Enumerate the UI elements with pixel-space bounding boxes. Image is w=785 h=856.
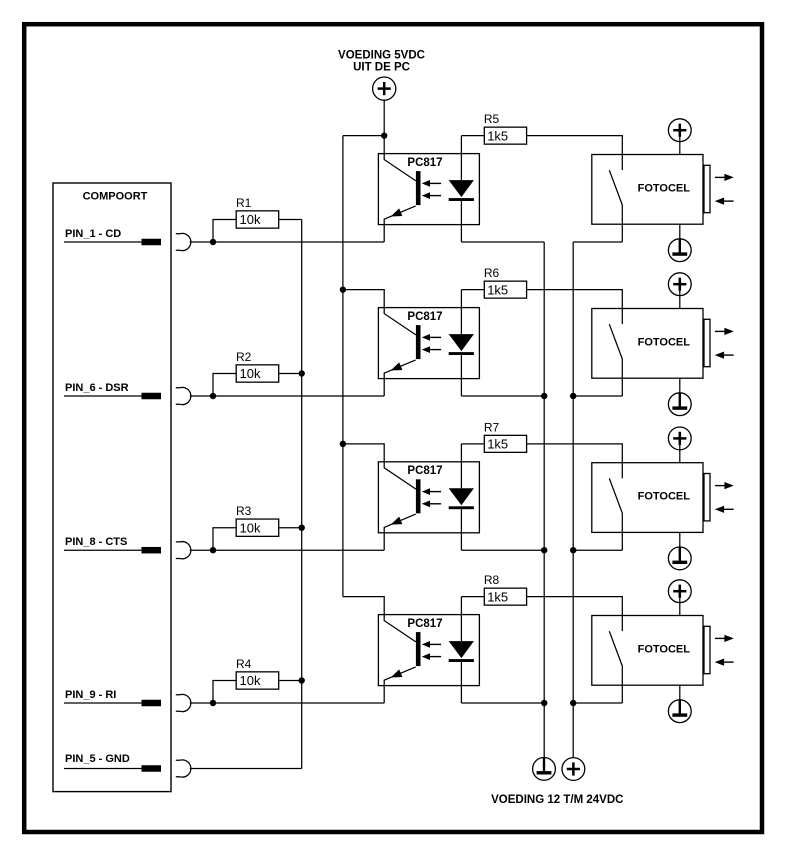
S2 switch output wire bbox=[621, 360, 623, 397]
S4 power terminal + bbox=[668, 580, 691, 603]
wire pin PIN_6 - DSR to junction bbox=[190, 395, 213, 397]
resistor R3 box bbox=[236, 519, 279, 536]
S3 switch output wire bbox=[621, 514, 623, 551]
svg-text:R2: R2 bbox=[236, 350, 252, 364]
fotocel S3 box bbox=[592, 463, 703, 533]
S4 lens tab bbox=[704, 626, 710, 673]
wire R6 left lead bbox=[461, 289, 484, 291]
pin lead line PIN_1 - CD bbox=[64, 241, 161, 243]
U2 light arrow 1 bbox=[422, 334, 441, 341]
U3 LED cathode bar bbox=[449, 506, 474, 509]
U2 phototransistor emitter bbox=[384, 360, 416, 396]
S1 emitted beam arrow bbox=[715, 174, 734, 181]
svg-text:FOTOCEL: FOTOCEL bbox=[638, 644, 691, 656]
svg-text:UIT DE PC: UIT DE PC bbox=[353, 62, 410, 74]
S3 lens tab bbox=[704, 474, 710, 521]
S2 power terminal + bbox=[668, 273, 691, 296]
fotocel S1 box bbox=[592, 155, 703, 225]
S1 power terminal + bbox=[668, 119, 691, 142]
wire R4 to pulldown rail bbox=[279, 680, 302, 682]
svg-text:R4: R4 bbox=[236, 657, 252, 671]
svg-text:PIN_6 - DSR: PIN_6 - DSR bbox=[65, 382, 129, 394]
svg-text:1k5: 1k5 bbox=[487, 128, 508, 143]
S1 reflected beam arrow bbox=[715, 198, 734, 205]
wire 5V rail to U3 collector bbox=[343, 444, 384, 462]
U3 LED anode wire bbox=[460, 444, 462, 488]
wire GND pin to pulldown rail bbox=[190, 768, 302, 770]
U1 LED cathode bar bbox=[449, 198, 474, 201]
pin contact bar PIN_6 - DSR bbox=[142, 393, 162, 400]
svg-text:R7: R7 bbox=[484, 420, 500, 434]
S4 switch output wire bbox=[621, 667, 623, 704]
wire S1 output to +24V rail bbox=[573, 241, 622, 243]
fotocel S4 box bbox=[592, 616, 703, 686]
wire S2 output to +24V rail bbox=[573, 395, 622, 397]
S1 ground lead bbox=[679, 224, 681, 253]
junction node GND rail row 4 bbox=[541, 700, 547, 706]
svg-text:R1: R1 bbox=[236, 196, 252, 210]
pin contact bar PIN_8 - CTS bbox=[142, 547, 162, 554]
resistor R1 box bbox=[236, 211, 279, 228]
S1 ground terminal bbox=[668, 239, 691, 262]
wire S3 output to +24V rail bbox=[573, 549, 622, 551]
U1 light arrow 1 bbox=[422, 180, 441, 187]
svg-text:PIN_8 - CTS: PIN_8 - CTS bbox=[65, 536, 127, 548]
resistor R6 box bbox=[484, 281, 526, 298]
junction node pin row 3 bbox=[210, 547, 216, 553]
U4 LED triangle bbox=[449, 641, 474, 658]
pin socket arc PIN_8 - CTS bbox=[176, 542, 191, 559]
svg-text:VOEDING 5VDC: VOEDING 5VDC bbox=[338, 50, 425, 62]
supply ground terminal bbox=[533, 758, 556, 781]
pin socket arc PIN_9 - RI bbox=[176, 694, 191, 711]
wire U3 cathode to GND rail bbox=[461, 549, 544, 551]
junction node pin row 4 bbox=[210, 700, 216, 706]
pin lead line PIN_8 - CTS bbox=[64, 549, 161, 551]
S4 emitted beam arrow bbox=[715, 635, 734, 642]
junction node GND rail row 3 bbox=[541, 547, 547, 553]
S2 switch blade bbox=[609, 324, 622, 359]
wire R3 to pulldown rail bbox=[279, 527, 302, 529]
S3 ground terminal bbox=[668, 547, 691, 570]
S4 ground lead bbox=[679, 685, 681, 714]
wire R5 to fotocel switch bbox=[527, 136, 623, 170]
U3 LED triangle bbox=[449, 488, 474, 505]
wire pin PIN_8 - CTS to junction bbox=[190, 549, 213, 551]
U2 light arrow 2 bbox=[422, 346, 441, 353]
U4 LED cathode bar bbox=[449, 659, 474, 662]
connector J1 COMPOORT box bbox=[53, 183, 171, 792]
fotocel S2 box bbox=[592, 309, 703, 379]
junction node GND rail row 2 bbox=[541, 393, 547, 399]
svg-text:10k: 10k bbox=[240, 212, 261, 227]
S1 switch output wire bbox=[621, 206, 623, 243]
junction node +24V rail row 3 bbox=[570, 547, 576, 553]
wire R8 left lead bbox=[461, 596, 484, 598]
S3 switch blade bbox=[609, 478, 622, 513]
svg-text:1k5: 1k5 bbox=[487, 437, 508, 452]
U3 light arrow 1 bbox=[422, 488, 441, 495]
S2 ground lead bbox=[679, 378, 681, 407]
S3 power terminal + bbox=[668, 427, 691, 450]
resistor R7 box bbox=[484, 435, 526, 452]
U4 light arrow 1 bbox=[422, 641, 441, 648]
svg-text:1k5: 1k5 bbox=[487, 282, 508, 297]
U1 phototransistor emitter bbox=[384, 206, 416, 242]
optocoupler U2 PC817 box bbox=[378, 308, 479, 379]
wire +5V feed to U1 collector bbox=[383, 136, 385, 154]
pin lead line PIN_6 - DSR bbox=[64, 395, 161, 397]
svg-text:PIN_1 - CD: PIN_1 - CD bbox=[65, 228, 121, 240]
svg-text:COMPOORT: COMPOORT bbox=[83, 191, 148, 203]
optocoupler U4 PC817 box bbox=[378, 615, 479, 686]
U2 LED anode wire bbox=[460, 290, 462, 334]
wire pin PIN_1 - CD to junction bbox=[190, 241, 213, 243]
pin socket arc PIN_6 - DSR bbox=[176, 387, 191, 404]
svg-text:R8: R8 bbox=[484, 573, 500, 587]
U3 phototransistor emitter bbox=[384, 514, 416, 550]
optocoupler U1 PC817 box bbox=[378, 154, 479, 225]
U3 phototransistor base plate bbox=[416, 479, 421, 513]
wire R1 to pulldown rail bbox=[279, 219, 302, 221]
pin socket arc PIN_1 - CD bbox=[176, 233, 191, 250]
junction node pin row 1 bbox=[210, 239, 216, 245]
junction node R2 on pulldown rail bbox=[299, 370, 305, 376]
svg-text:10k: 10k bbox=[240, 520, 261, 535]
pin lead line PIN_9 - RI bbox=[64, 702, 161, 704]
resistor R2 box bbox=[236, 365, 279, 382]
U2 LED triangle bbox=[449, 334, 474, 351]
wire junction up to R2 bbox=[213, 374, 236, 397]
pin lead line PIN_5 - GND bbox=[64, 768, 161, 770]
S2 ground terminal bbox=[668, 393, 691, 416]
svg-text:PIN_9 - RI: PIN_9 - RI bbox=[65, 689, 116, 701]
resistor R8 box bbox=[484, 588, 526, 605]
svg-text:1k5: 1k5 bbox=[487, 589, 508, 604]
wire junction up to R3 bbox=[213, 528, 236, 551]
U4 phototransistor emitter bbox=[384, 667, 416, 703]
wire 5V rail bbox=[342, 136, 344, 597]
S3 emitted beam arrow bbox=[715, 482, 734, 489]
pin contact bar PIN_5 - GND bbox=[142, 765, 162, 772]
U1 phototransistor collector bbox=[384, 154, 416, 181]
svg-text:PIN_5 - GND: PIN_5 - GND bbox=[65, 753, 130, 765]
S2 reflected beam arrow bbox=[715, 352, 734, 359]
svg-text:PC817: PC817 bbox=[407, 465, 442, 477]
wire pulldown rail to GND bbox=[301, 220, 303, 769]
wire row 3 to optocoupler emitter bbox=[213, 549, 384, 551]
wire row 2 to optocoupler emitter bbox=[213, 395, 384, 397]
junction node 5V rail row 2 bbox=[340, 286, 346, 292]
wire junction up to R4 bbox=[213, 681, 236, 704]
optocoupler U3 PC817 box bbox=[378, 462, 479, 533]
U4 phototransistor collector bbox=[384, 615, 416, 642]
U2 phototransistor base plate bbox=[416, 325, 421, 359]
svg-text:10k: 10k bbox=[240, 366, 261, 381]
junction node R4 on pulldown rail bbox=[299, 677, 305, 683]
U3 light arrow 2 bbox=[422, 500, 441, 507]
S1 power lead bbox=[679, 136, 681, 154]
S2 lens tab bbox=[704, 319, 710, 366]
svg-text:FOTOCEL: FOTOCEL bbox=[638, 491, 691, 503]
pin contact bar PIN_9 - RI bbox=[142, 700, 162, 707]
U4 LED cathode wire bbox=[460, 662, 462, 703]
svg-text:R6: R6 bbox=[484, 266, 500, 280]
wire R2 to pulldown rail bbox=[279, 373, 302, 375]
wire row 4 to optocoupler emitter bbox=[213, 702, 384, 704]
junction node R3 on pulldown rail bbox=[299, 525, 305, 531]
svg-text:FOTOCEL: FOTOCEL bbox=[638, 337, 691, 349]
power terminal +5V bbox=[373, 77, 396, 100]
S4 power lead bbox=[679, 597, 681, 615]
wire 5V rail to U4 collector bbox=[343, 597, 384, 615]
svg-text:VOEDING 12 T/M 24VDC: VOEDING 12 T/M 24VDC bbox=[491, 794, 623, 806]
U3 emitter arrowhead bbox=[391, 517, 403, 525]
U1 LED anode wire bbox=[460, 136, 462, 180]
wire R8 to fotocel switch bbox=[527, 597, 623, 631]
S2 emitted beam arrow bbox=[715, 328, 734, 335]
junction node +5V feed bbox=[381, 132, 387, 138]
wire R7 left lead bbox=[461, 443, 484, 445]
junction node 5V rail row 3 bbox=[340, 441, 346, 447]
supply terminal + 12/24V bbox=[562, 758, 585, 781]
U1 LED cathode wire bbox=[460, 201, 462, 242]
svg-text:R5: R5 bbox=[484, 112, 500, 126]
wire U2 cathode to GND rail bbox=[461, 395, 544, 397]
svg-text:PC817: PC817 bbox=[407, 311, 442, 323]
junction node pin row 2 bbox=[210, 393, 216, 399]
svg-text:R3: R3 bbox=[236, 504, 252, 518]
svg-text:PC817: PC817 bbox=[407, 157, 442, 169]
U1 LED triangle bbox=[449, 180, 474, 197]
svg-text:FOTOCEL: FOTOCEL bbox=[638, 183, 691, 195]
U1 light arrow 2 bbox=[422, 192, 441, 199]
U2 emitter arrowhead bbox=[391, 362, 403, 370]
wire R7 to fotocel switch bbox=[527, 444, 623, 478]
wire +5V terminal down bbox=[383, 100, 385, 135]
U3 phototransistor collector bbox=[384, 462, 416, 489]
junction node +24V rail row 4 bbox=[570, 700, 576, 706]
pin socket arc PIN_5 - GND bbox=[176, 760, 191, 777]
resistor R5 box bbox=[484, 127, 526, 144]
wire +24V rail (switch commons) bbox=[572, 242, 574, 758]
S3 ground lead bbox=[679, 532, 681, 561]
U2 phototransistor collector bbox=[384, 308, 416, 335]
S2 power lead bbox=[679, 290, 681, 308]
wire R6 to fotocel switch bbox=[527, 290, 623, 324]
wire U4 cathode to GND rail bbox=[461, 702, 544, 704]
S3 power lead bbox=[679, 444, 681, 462]
junction node +24V rail row 2 bbox=[570, 393, 576, 399]
svg-text:10k: 10k bbox=[240, 673, 261, 688]
pin contact bar PIN_1 - CD bbox=[142, 239, 162, 246]
U3 LED cathode wire bbox=[460, 509, 462, 550]
U4 phototransistor base plate bbox=[416, 632, 421, 666]
U4 light arrow 2 bbox=[422, 653, 441, 660]
wire row 1 to optocoupler emitter bbox=[213, 241, 384, 243]
S1 lens tab bbox=[704, 165, 710, 212]
wire GND rail (LED cathodes) bbox=[543, 242, 545, 771]
wire U1 cathode to GND rail bbox=[461, 241, 544, 243]
U1 emitter arrowhead bbox=[391, 208, 403, 216]
U2 LED cathode wire bbox=[460, 355, 462, 396]
S4 switch blade bbox=[609, 631, 622, 666]
wire S4 output to +24V rail bbox=[573, 702, 622, 704]
wire +5V to rail bbox=[343, 135, 384, 137]
wire R5 left lead bbox=[461, 135, 484, 137]
U1 phototransistor base plate bbox=[416, 171, 421, 205]
U4 LED anode wire bbox=[460, 597, 462, 641]
S4 ground terminal bbox=[668, 700, 691, 723]
U4 emitter arrowhead bbox=[391, 669, 403, 677]
S4 reflected beam arrow bbox=[715, 659, 734, 666]
wire junction up to R1 bbox=[213, 220, 236, 243]
resistor R4 box bbox=[236, 672, 279, 689]
wire pin PIN_9 - RI to junction bbox=[190, 702, 213, 704]
S3 reflected beam arrow bbox=[715, 506, 734, 513]
U2 LED cathode bar bbox=[449, 352, 474, 355]
S1 switch blade bbox=[609, 170, 622, 205]
wire 5V rail to U2 collector bbox=[343, 290, 384, 308]
svg-text:PC817: PC817 bbox=[407, 618, 442, 630]
